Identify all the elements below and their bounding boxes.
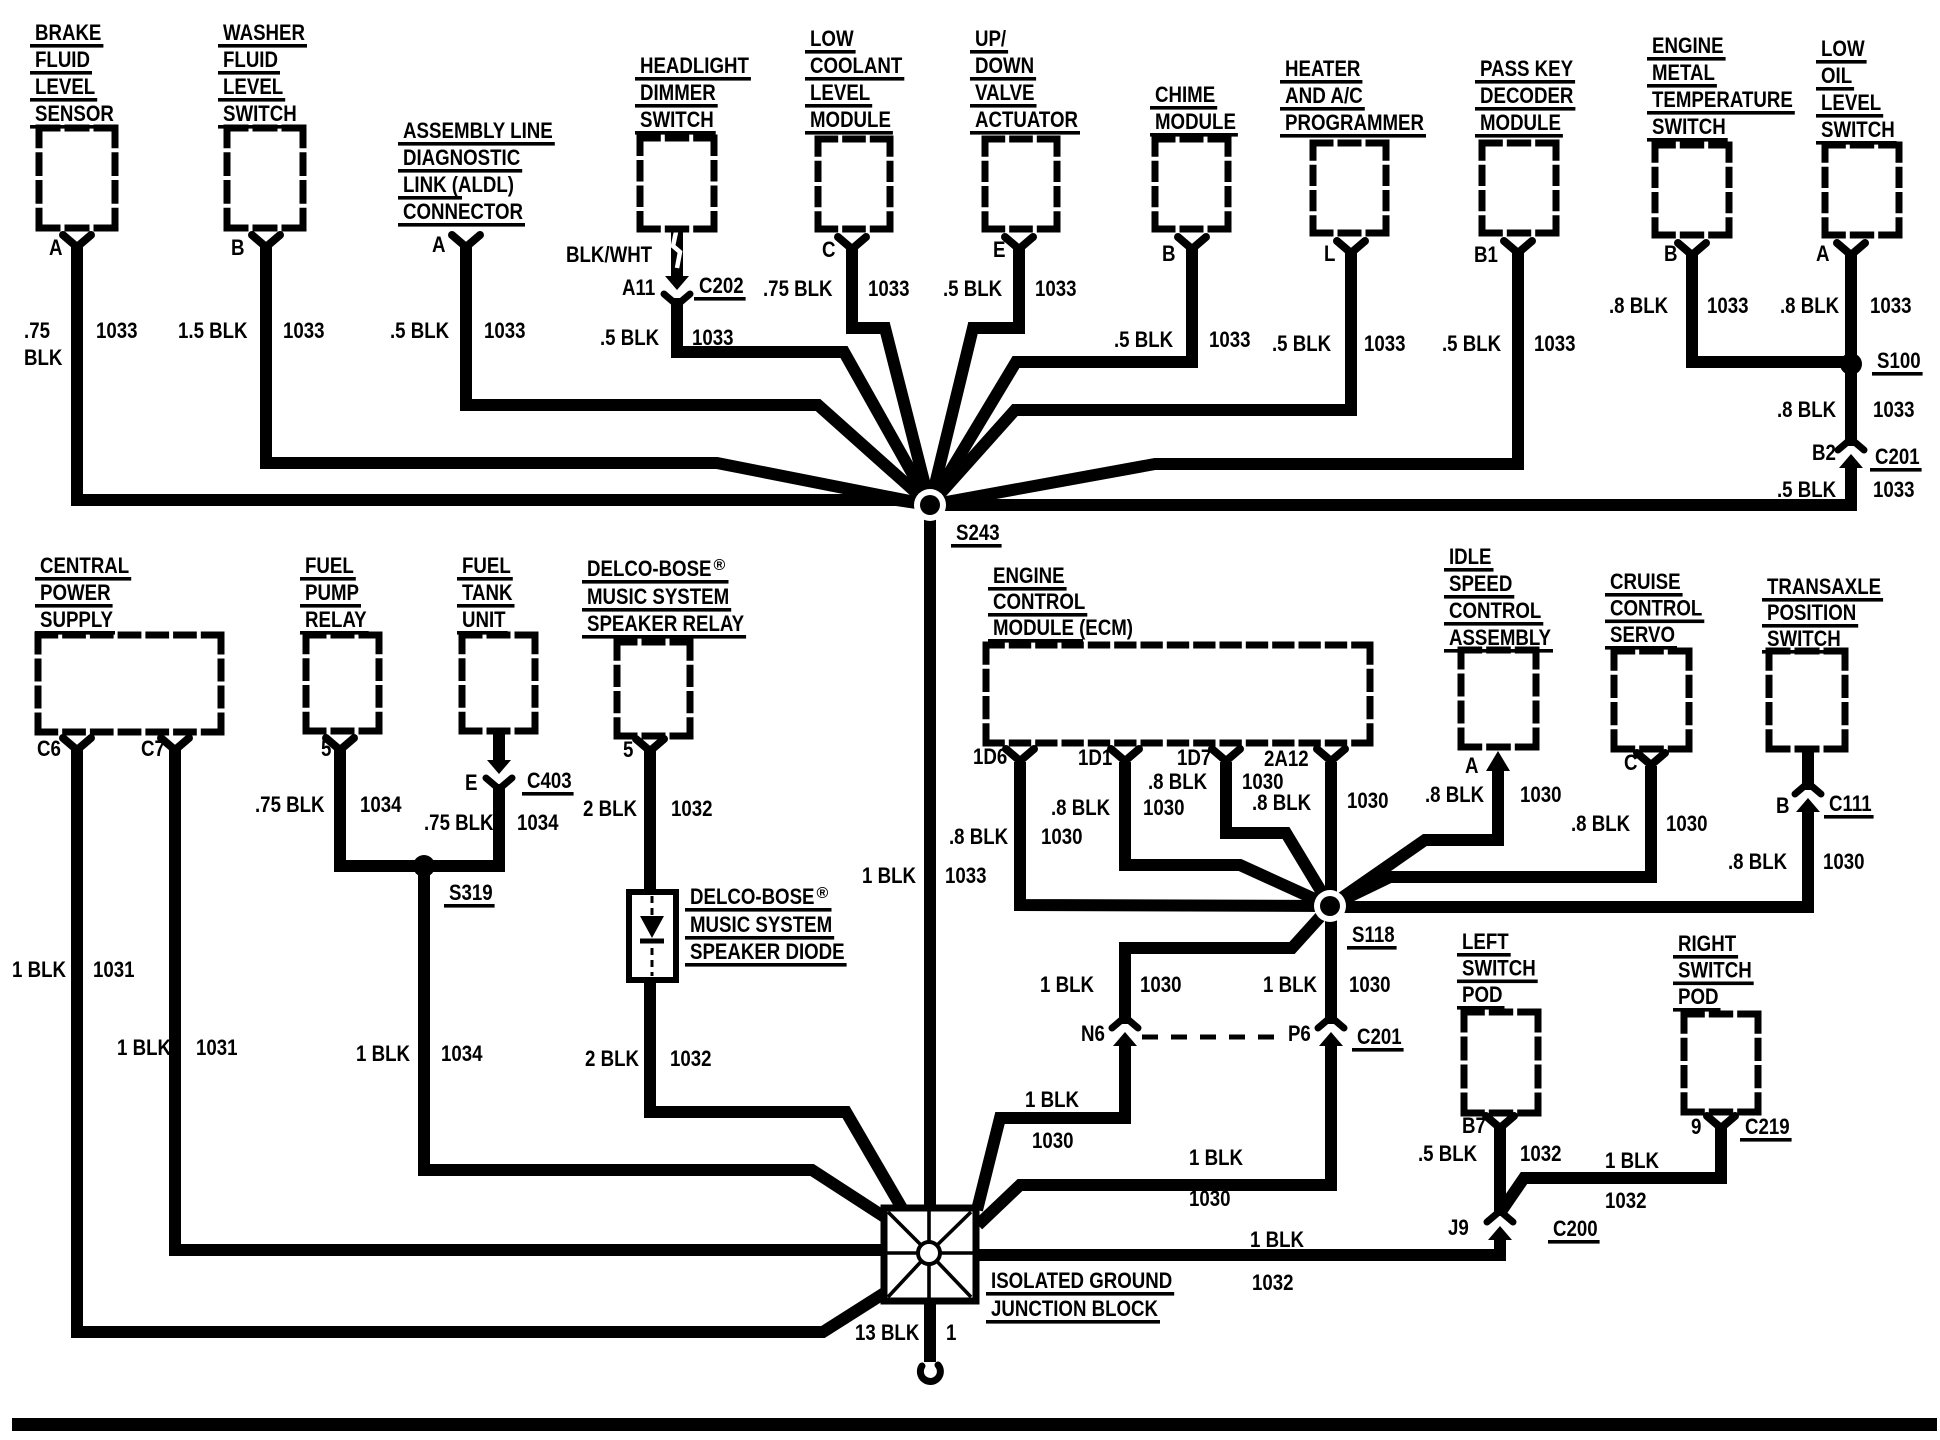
svg-text:HEATER: HEATER	[1285, 56, 1360, 81]
svg-text:C201: C201	[1357, 1024, 1402, 1049]
svg-text:5: 5	[623, 737, 633, 762]
component box: engine control module (ECM)	[986, 645, 1370, 743]
wire headlight dimmer BLK/WHT to C202	[671, 228, 683, 278]
svg-text:COOLANT: COOLANT	[810, 53, 903, 78]
svg-text:LEVEL: LEVEL	[810, 80, 870, 105]
svg-text:1033: 1033	[945, 863, 987, 888]
component box: heater and a/c programmer	[1313, 143, 1386, 233]
svg-text:PASS KEY: PASS KEY	[1480, 56, 1573, 81]
pin B of chime module	[1178, 237, 1206, 249]
pin B1 of pass key decoder module	[1504, 241, 1532, 253]
wire up/down valve .5 BLK 1033 to S243	[930, 249, 1019, 505]
wire brake sensor .75 BLK 1033 to S243	[77, 247, 930, 505]
delco-bose music system speaker diode	[629, 892, 676, 980]
wire idle speed control A .8 BLK 1030 to S118	[1330, 770, 1498, 906]
pin 1D6 of ECM	[1006, 749, 1034, 761]
svg-text:RIGHT: RIGHT	[1678, 931, 1736, 956]
svg-text:POD: POD	[1462, 982, 1503, 1007]
svg-text:.5 BLK: .5 BLK	[1114, 327, 1174, 352]
isolated ground junction block	[884, 1208, 976, 1301]
svg-text:5: 5	[321, 736, 331, 761]
svg-text:.75 BLK: .75 BLK	[255, 792, 325, 817]
svg-text:1030: 1030	[1520, 782, 1562, 807]
pin C7 of central power supply	[161, 738, 189, 750]
pin C of low coolant level module	[838, 237, 866, 249]
component box: brake fluid level sensor	[39, 128, 115, 228]
svg-text:.8 BLK: .8 BLK	[1051, 795, 1111, 820]
wire central power supply C7 1 BLK 1031 to junction block	[175, 750, 884, 1250]
svg-text:1030: 1030	[1666, 811, 1708, 836]
svg-text:C403: C403	[527, 768, 572, 793]
svg-text:1030: 1030	[1189, 1186, 1231, 1211]
svg-text:1033: 1033	[1873, 397, 1915, 422]
svg-text:.5 BLK: .5 BLK	[390, 318, 450, 343]
pin 1D7 of ECM	[1212, 749, 1240, 761]
svg-text:B: B	[231, 235, 245, 260]
svg-text:SPEAKER DIODE: SPEAKER DIODE	[690, 939, 845, 964]
pin C6 of central power supply	[63, 738, 91, 750]
pin E of up/down valve actuator	[1005, 237, 1033, 249]
svg-text:1030: 1030	[1032, 1128, 1074, 1153]
ground grommet / ring terminal	[920, 1365, 940, 1381]
svg-text:LOW: LOW	[810, 26, 854, 51]
svg-text:S100: S100	[1877, 348, 1921, 373]
svg-text:SENSOR: SENSOR	[35, 101, 114, 126]
svg-text:1034: 1034	[441, 1041, 483, 1066]
svg-text:2A12: 2A12	[1264, 746, 1309, 771]
svg-text:CONTROL: CONTROL	[1449, 598, 1542, 623]
connector C201 pin P6	[1318, 1017, 1344, 1028]
svg-text:P6: P6	[1288, 1021, 1311, 1046]
svg-text:B: B	[1162, 241, 1176, 266]
svg-text:1 BLK: 1 BLK	[117, 1035, 172, 1060]
svg-text:SERVO: SERVO	[1610, 622, 1675, 647]
svg-text:.8 BLK: .8 BLK	[949, 824, 1009, 849]
connector C201 pin N6	[1112, 1017, 1138, 1028]
svg-text:C111: C111	[1829, 791, 1872, 816]
component box: cruise control servo	[1614, 651, 1689, 749]
pin B of engine metal temperature switch	[1678, 243, 1706, 255]
svg-text:.8 BLK: .8 BLK	[1252, 790, 1312, 815]
svg-text:SWITCH: SWITCH	[1652, 114, 1726, 139]
pin C of cruise control servo	[1637, 753, 1665, 765]
svg-text:1031: 1031	[196, 1035, 238, 1060]
svg-text:SWITCH: SWITCH	[223, 101, 297, 126]
svg-text:.5 BLK: .5 BLK	[600, 325, 660, 350]
connector C202 pin A11	[665, 276, 689, 290]
svg-text:ENGINE: ENGINE	[1652, 33, 1724, 58]
svg-text:N6: N6	[1081, 1021, 1105, 1046]
svg-text:CONTROL: CONTROL	[1610, 596, 1703, 621]
svg-text:C200: C200	[1553, 1216, 1598, 1241]
svg-text:1030: 1030	[1347, 788, 1389, 813]
svg-text:.5 BLK: .5 BLK	[943, 276, 1003, 301]
svg-text:13 BLK: 13 BLK	[855, 1320, 920, 1345]
svg-text:DIMMER: DIMMER	[640, 80, 716, 105]
splice S118	[1314, 890, 1346, 922]
svg-text:CONNECTOR: CONNECTOR	[403, 199, 523, 224]
wire cruise servo C .8 BLK 1030 to S118	[1330, 766, 1651, 906]
wire junction block 13 BLK 1 ground lead	[924, 1301, 936, 1362]
svg-text:.5 BLK: .5 BLK	[1777, 477, 1837, 502]
svg-text:TRANSAXLE: TRANSAXLE	[1767, 574, 1881, 599]
component box: idle speed control assembly	[1461, 650, 1536, 747]
svg-text:1: 1	[946, 1320, 956, 1345]
svg-text:.8 BLK: .8 BLK	[1780, 293, 1840, 318]
svg-text:DIAGNOSTIC: DIAGNOSTIC	[403, 145, 520, 170]
wire right switch pod 9 1 BLK 1032 to C200	[1500, 1128, 1721, 1213]
svg-text:SPEED: SPEED	[1449, 571, 1512, 596]
svg-text:CONTROL: CONTROL	[993, 589, 1086, 614]
svg-text:1030: 1030	[1143, 795, 1185, 820]
connector C403 pin E	[487, 760, 511, 774]
splice S243	[914, 489, 946, 521]
component box: low oil level switch	[1825, 145, 1899, 235]
wire ALDL .5 BLK 1033 to S243	[466, 246, 930, 505]
svg-text:UP/: UP/	[975, 26, 1007, 51]
svg-text:.8 BLK: .8 BLK	[1728, 849, 1788, 874]
component box: pass key decoder module	[1482, 143, 1556, 233]
component box: fuel tank unit	[462, 635, 535, 731]
svg-text:1030: 1030	[1823, 849, 1865, 874]
connector C111 pin B	[1795, 783, 1821, 794]
svg-text:E: E	[993, 237, 1006, 262]
wire diode 2 BLK 1032 to junction block	[650, 976, 903, 1210]
svg-text:DECODER: DECODER	[1480, 83, 1573, 108]
svg-text:PUMP: PUMP	[305, 580, 359, 605]
svg-text:CRUISE: CRUISE	[1610, 569, 1681, 594]
svg-text:.5 BLK: .5 BLK	[1418, 1141, 1478, 1166]
svg-text:1032: 1032	[671, 796, 713, 821]
svg-text:.8 BLK: .8 BLK	[1148, 769, 1208, 794]
svg-text:1 BLK: 1 BLK	[862, 863, 917, 888]
pin A of brake fluid level sensor	[63, 235, 91, 247]
svg-text:.8 BLK: .8 BLK	[1609, 293, 1669, 318]
connector C201 pin B2	[1838, 439, 1864, 450]
wire S319 down 1 BLK 1034 to junction block	[424, 866, 886, 1218]
svg-text:POD: POD	[1678, 984, 1719, 1009]
svg-text:MODULE: MODULE	[1155, 109, 1236, 134]
wire central power supply C6 1 BLK 1031 to junction block	[77, 750, 886, 1332]
wire C201 to S243 .5 BLK 1033	[930, 466, 1851, 505]
component box: up/down valve actuator	[985, 139, 1057, 229]
wire fuel tank unit to C403 pin E	[493, 731, 505, 764]
bottom border bar	[12, 1418, 1937, 1431]
component box: right switch pod	[1684, 1014, 1758, 1112]
pin 5 of delco-bose speaker relay	[636, 739, 664, 751]
svg-text:A: A	[432, 232, 446, 257]
svg-text:1032: 1032	[1605, 1188, 1647, 1213]
svg-text:J9: J9	[1448, 1215, 1469, 1240]
svg-text:1 BLK: 1 BLK	[1025, 1087, 1080, 1112]
svg-text:HEADLIGHT: HEADLIGHT	[640, 53, 749, 78]
svg-text:1033: 1033	[1534, 331, 1576, 356]
svg-text:1.5 BLK: 1.5 BLK	[178, 318, 248, 343]
pin B7 of left switch pod	[1486, 1116, 1514, 1128]
svg-text:MUSIC SYSTEM: MUSIC SYSTEM	[690, 912, 832, 937]
svg-text:POSITION: POSITION	[1767, 600, 1856, 625]
component box: left switch pod	[1464, 1012, 1538, 1113]
svg-text:A: A	[1465, 753, 1479, 778]
wire low coolant .75 BLK 1033 to S243	[852, 249, 930, 505]
svg-text:1D7: 1D7	[1177, 745, 1211, 770]
splice S100	[1840, 353, 1862, 375]
svg-text:1033: 1033	[1707, 293, 1749, 318]
dashed line of connector C201 between pins N6 and P6	[1142, 1035, 1278, 1040]
svg-text:1033: 1033	[692, 325, 734, 350]
wire dimmer .5 BLK 1033 C202 to S243	[677, 298, 930, 505]
svg-text:FUEL: FUEL	[462, 553, 511, 578]
svg-text:LEFT: LEFT	[1462, 929, 1509, 954]
svg-text:1033: 1033	[868, 276, 910, 301]
pin 9 of right switch pod / C219	[1707, 1116, 1735, 1128]
svg-text:C219: C219	[1745, 1114, 1790, 1139]
svg-text:TANK: TANK	[462, 580, 513, 605]
svg-text:LOW: LOW	[1821, 36, 1865, 61]
svg-text:1 BLK: 1 BLK	[1250, 1227, 1305, 1252]
svg-text:RELAY: RELAY	[305, 607, 367, 632]
wire C111 .8 BLK 1030 to S118	[1330, 810, 1808, 907]
svg-text:DELCO-BOSE: DELCO-BOSE	[587, 556, 712, 581]
svg-text:.75: .75	[24, 318, 50, 343]
svg-text:BRAKE: BRAKE	[35, 20, 101, 45]
svg-text:ASSEMBLY: ASSEMBLY	[1449, 625, 1551, 650]
svg-text:L: L	[1324, 241, 1336, 266]
wire S100 to C201 pin B2 .8 BLK 1033	[1845, 364, 1857, 446]
svg-text:1 BLK: 1 BLK	[1040, 972, 1095, 997]
svg-text:LEVEL: LEVEL	[223, 74, 283, 99]
wire chime module .5 BLK 1033 to S243	[930, 249, 1192, 505]
svg-text:1D6: 1D6	[973, 744, 1007, 769]
svg-text:ISOLATED GROUND: ISOLATED GROUND	[991, 1268, 1172, 1293]
svg-text:MODULE: MODULE	[810, 107, 891, 132]
svg-text:1033: 1033	[1035, 276, 1077, 301]
svg-text:A: A	[1816, 241, 1830, 266]
svg-text:C: C	[1624, 750, 1638, 775]
svg-text:PROGRAMMER: PROGRAMMER	[1285, 110, 1424, 135]
pin A of low oil level switch	[1837, 243, 1865, 255]
svg-text:1034: 1034	[517, 810, 559, 835]
svg-text:1 BLK: 1 BLK	[1263, 972, 1318, 997]
svg-text:UNIT: UNIT	[462, 607, 506, 632]
svg-text:.5 BLK: .5 BLK	[1442, 331, 1502, 356]
svg-text:.5 BLK: .5 BLK	[1272, 331, 1332, 356]
svg-text:1033: 1033	[96, 318, 138, 343]
svg-text:E: E	[465, 770, 478, 795]
svg-text:SWITCH: SWITCH	[1767, 626, 1841, 651]
wire heater a/c programmer .5 BLK 1033 to S243	[930, 253, 1351, 505]
svg-text:1033: 1033	[283, 318, 325, 343]
pin 1D1 of ECM	[1111, 749, 1139, 761]
svg-text:DOWN: DOWN	[975, 53, 1034, 78]
pin 2A12 of ECM	[1317, 749, 1345, 761]
svg-text:SWITCH: SWITCH	[1821, 117, 1895, 142]
svg-text:C7: C7	[141, 736, 165, 761]
wire C200 to left switch pod B7 .5 BLK 1032	[1494, 1128, 1506, 1216]
svg-text:1031: 1031	[93, 957, 135, 982]
component box: engine metal temperature switch	[1655, 145, 1729, 235]
wire ECM 1D6 .8 BLK 1030 to S118	[1020, 762, 1330, 906]
svg-text:.8 BLK: .8 BLK	[1571, 811, 1631, 836]
svg-text:C201: C201	[1875, 444, 1920, 469]
svg-text:OIL: OIL	[1821, 63, 1852, 88]
svg-text:B1: B1	[1474, 242, 1498, 267]
wire low oil level switch .8 BLK 1033 to S100	[1845, 255, 1857, 360]
pin 5 of fuel pump relay	[326, 738, 354, 750]
svg-text:SWITCH: SWITCH	[1678, 958, 1752, 983]
svg-text:1 BLK: 1 BLK	[1189, 1145, 1244, 1170]
svg-text:FLUID: FLUID	[223, 47, 278, 72]
svg-text:1034: 1034	[360, 792, 402, 817]
svg-text:B2: B2	[1812, 440, 1836, 465]
wire ECM 1D1 .8 BLK 1030 to S118	[1125, 762, 1330, 906]
svg-text:1033: 1033	[1870, 293, 1912, 318]
pin B of washer fluid level switch	[252, 235, 280, 247]
svg-text:C6: C6	[37, 736, 61, 761]
svg-text:A11: A11	[622, 275, 655, 300]
component box: central power supply	[38, 635, 221, 732]
wire junction block 1 BLK 1032 to C200 pin J9	[976, 1240, 1500, 1255]
wire transaxle position switch to C111 pin B	[1802, 749, 1814, 790]
svg-text:S319: S319	[449, 880, 493, 905]
svg-text:SPEAKER RELAY: SPEAKER RELAY	[587, 611, 744, 636]
pin A of ALDL connector	[452, 235, 480, 247]
svg-text:MUSIC SYSTEM: MUSIC SYSTEM	[587, 584, 729, 609]
svg-text:MODULE (ECM): MODULE (ECM)	[993, 615, 1133, 640]
wire fuel pump relay .75 BLK 1034 to S319	[340, 750, 424, 866]
component box: transaxle position switch	[1769, 651, 1845, 749]
svg-text:LINK (ALDL): LINK (ALDL)	[403, 172, 514, 197]
svg-text:LEVEL: LEVEL	[1821, 90, 1881, 115]
svg-text:B7: B7	[1462, 1113, 1486, 1138]
svg-text:B: B	[1664, 241, 1678, 266]
svg-text:JUNCTION BLOCK: JUNCTION BLOCK	[991, 1296, 1159, 1321]
svg-text:CHIME: CHIME	[1155, 82, 1215, 107]
svg-text:1030: 1030	[1041, 824, 1083, 849]
svg-text:SWITCH: SWITCH	[1462, 956, 1536, 981]
svg-text:CENTRAL: CENTRAL	[40, 553, 129, 578]
svg-text:C202: C202	[699, 273, 744, 298]
svg-text:SUPPLY: SUPPLY	[40, 607, 113, 632]
svg-text:ASSEMBLY LINE: ASSEMBLY LINE	[403, 118, 553, 143]
svg-text:DELCO-BOSE: DELCO-BOSE	[690, 884, 815, 909]
svg-text:1030: 1030	[1349, 972, 1391, 997]
svg-text:1033: 1033	[1209, 327, 1251, 352]
svg-text:®: ®	[714, 557, 726, 574]
svg-text:VALVE: VALVE	[975, 80, 1035, 105]
svg-text:1 BLK: 1 BLK	[12, 957, 67, 982]
svg-text:2 BLK: 2 BLK	[583, 796, 638, 821]
connector C200 pin J9	[1487, 1211, 1513, 1222]
svg-text:BLK/WHT: BLK/WHT	[566, 242, 652, 267]
svg-text:ENGINE: ENGINE	[993, 563, 1065, 588]
component box: delco-bose music system speaker relay	[617, 642, 690, 736]
svg-text:1030: 1030	[1140, 972, 1182, 997]
component box: low coolant level module	[818, 139, 890, 229]
pin L of heater and a/c programmer	[1337, 241, 1365, 253]
svg-text:SWITCH: SWITCH	[640, 107, 714, 132]
svg-text:1032: 1032	[1520, 1141, 1562, 1166]
svg-text:.75 BLK: .75 BLK	[763, 276, 833, 301]
svg-text:1 BLK: 1 BLK	[356, 1041, 411, 1066]
svg-text:ACTUATOR: ACTUATOR	[975, 107, 1078, 132]
svg-text:TEMPERATURE: TEMPERATURE	[1652, 87, 1793, 112]
component box: fuel pump relay	[306, 635, 379, 731]
svg-text:.75 BLK: .75 BLK	[424, 810, 494, 835]
wire S243 down 1 BLK 1033 to junction block	[924, 505, 936, 1208]
wire pass key decoder .5 BLK 1033 to S243	[930, 253, 1518, 505]
svg-text:®: ®	[817, 885, 829, 902]
svg-text:.8 BLK: .8 BLK	[1777, 397, 1837, 422]
component box: chime module	[1155, 139, 1228, 229]
wire ECM 1D7 .8 BLK 1030 to S118	[1226, 762, 1330, 906]
svg-text:FUEL: FUEL	[305, 553, 354, 578]
svg-text:1033: 1033	[484, 318, 526, 343]
svg-text:MODULE: MODULE	[1480, 110, 1561, 135]
svg-text:9: 9	[1691, 1114, 1701, 1139]
svg-text:.8 BLK: .8 BLK	[1425, 782, 1485, 807]
wire C403 .75 BLK 1034 to S319	[424, 784, 499, 866]
wire P6 1 BLK 1030 to junction block	[978, 1044, 1331, 1225]
svg-text:B: B	[1776, 793, 1790, 818]
svg-text:POWER: POWER	[40, 580, 111, 605]
wire washer switch 1.5 BLK 1033 to S243	[266, 247, 930, 505]
splice S319	[413, 855, 435, 877]
svg-text:BLK: BLK	[24, 345, 63, 370]
white stripe of BLK/WHT wire	[673, 232, 680, 268]
pin A arrow of idle speed control assembly	[1486, 751, 1510, 771]
svg-text:METAL: METAL	[1652, 60, 1715, 85]
wire engine metal temp switch .8 BLK 1033 to S100	[1692, 255, 1851, 362]
component box: washer fluid level switch	[227, 128, 303, 228]
wire N6 1 BLK 1030 to junction block	[977, 1044, 1125, 1210]
svg-text:LEVEL: LEVEL	[35, 74, 95, 99]
svg-text:FLUID: FLUID	[35, 47, 90, 72]
svg-text:A: A	[49, 235, 63, 260]
svg-text:2 BLK: 2 BLK	[585, 1046, 640, 1071]
wire S118 1 BLK 1030 to C201 pin N6	[1125, 906, 1330, 1024]
svg-text:1 BLK: 1 BLK	[1605, 1148, 1660, 1173]
svg-text:AND A/C: AND A/C	[1285, 83, 1363, 108]
svg-text:1032: 1032	[1252, 1270, 1294, 1295]
svg-text:1D1: 1D1	[1078, 745, 1112, 770]
svg-text:IDLE: IDLE	[1449, 544, 1492, 569]
svg-text:S118: S118	[1352, 922, 1395, 947]
svg-text:C: C	[822, 237, 836, 262]
svg-text:1033: 1033	[1873, 477, 1915, 502]
wire delco-bose relay 2 BLK 1032 to diode	[644, 751, 656, 892]
svg-text:1032: 1032	[670, 1046, 712, 1071]
wire ECM 2A12 .8 BLK 1030 through S118 to C201 pin P6	[1325, 762, 1337, 1024]
component box: headlight dimmer switch	[640, 138, 714, 229]
svg-text:S243: S243	[956, 520, 1000, 545]
svg-text:WASHER: WASHER	[223, 20, 305, 45]
svg-text:1033: 1033	[1364, 331, 1406, 356]
